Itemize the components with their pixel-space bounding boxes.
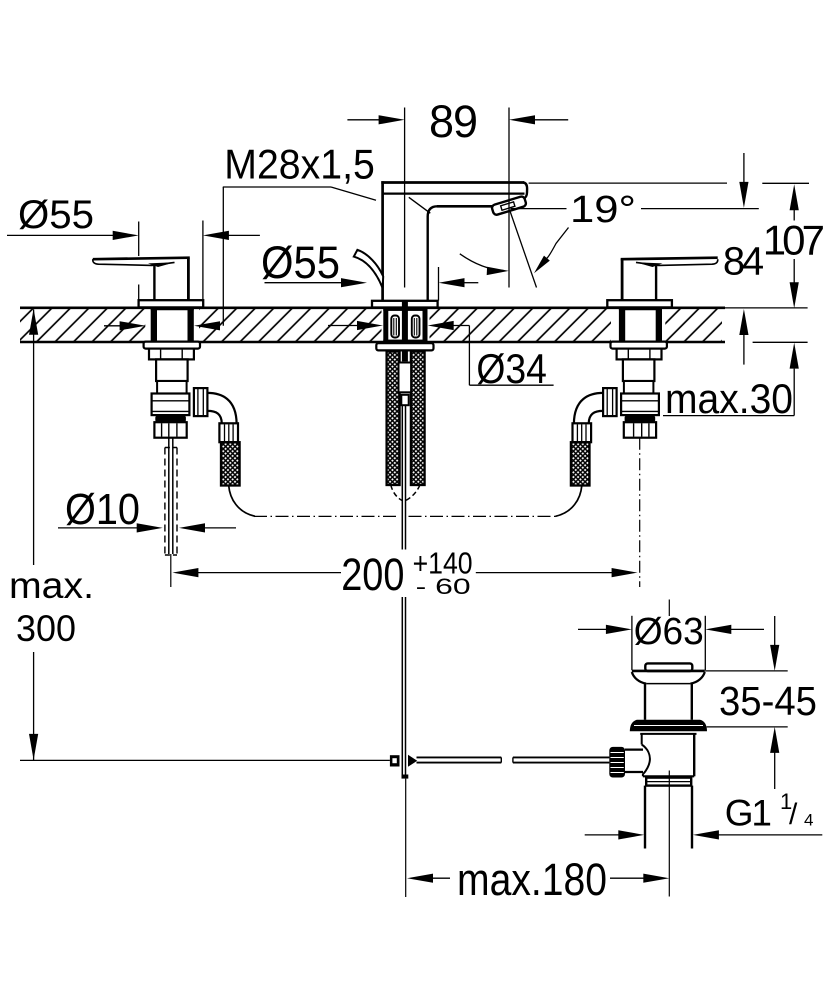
svg-text:Ø34: Ø34 xyxy=(476,345,547,392)
svg-text:Ø55: Ø55 xyxy=(261,237,340,288)
rod clamp tee xyxy=(390,755,417,779)
svg-text:89: 89 xyxy=(429,96,478,147)
faucet base escutcheon xyxy=(372,301,438,308)
pop-up rod through escutcheon xyxy=(402,300,408,308)
svg-text:200: 200 xyxy=(341,549,404,600)
left handle mounting shank in counter xyxy=(151,309,194,342)
drain knurled adjusting knob xyxy=(609,747,643,778)
hole arrows spout + label O34 xyxy=(328,325,359,327)
spout mounting studs in counter xyxy=(383,301,427,342)
right handle mounting shank in counter xyxy=(619,309,662,342)
left handle pipe with dashed cut region (O10) xyxy=(165,438,177,587)
horizontal actuating rod xyxy=(417,757,610,762)
svg-text:35-45: 35-45 xyxy=(719,678,817,724)
svg-text:M28x1,5: M28x1,5 xyxy=(224,141,374,188)
hose centerline dash-dot xyxy=(254,515,556,517)
hole arrow left handle left xyxy=(104,325,122,327)
svg-text:Ø55: Ø55 xyxy=(18,193,94,237)
svg-text:Ø63: Ø63 xyxy=(634,611,704,653)
svg-text:4: 4 xyxy=(804,811,813,830)
countertop hatched band xyxy=(20,308,808,343)
right handle centerline below valve xyxy=(639,438,641,587)
svg-text:- 60: - 60 xyxy=(416,574,471,599)
faucet under-counter washer and flex hoses xyxy=(376,343,433,485)
svg-text:107: 107 xyxy=(763,216,825,263)
dimension 89 xyxy=(347,108,568,288)
svg-text:19°: 19° xyxy=(570,189,636,231)
angle 19 deg reference xyxy=(460,209,759,288)
right handle elbow and flex hose xyxy=(556,388,617,516)
svg-text:max.180: max.180 xyxy=(457,854,607,905)
pop-up rod upper section xyxy=(391,405,420,549)
faucet spout body xyxy=(381,181,527,300)
svg-text:max.: max. xyxy=(9,565,94,606)
svg-text:/: / xyxy=(789,798,798,831)
pop-up rod lower section xyxy=(402,597,405,775)
centerline below rod xyxy=(405,779,407,897)
svg-text:G1: G1 xyxy=(725,793,772,834)
right handle lever xyxy=(607,258,717,308)
pop-up rod knob behind spout xyxy=(354,250,383,288)
faucet aerator tip (19 deg) xyxy=(491,196,527,216)
left handle lever xyxy=(93,258,203,308)
svg-text:300: 300 xyxy=(16,608,76,649)
svg-text:84: 84 xyxy=(723,240,764,284)
right handle under-counter valve xyxy=(611,342,667,438)
pop-up waste drain body xyxy=(630,600,707,897)
svg-text:Ø10: Ø10 xyxy=(65,485,140,534)
left handle under-counter valve xyxy=(144,342,200,438)
left handle elbow and flex hose xyxy=(194,388,255,516)
